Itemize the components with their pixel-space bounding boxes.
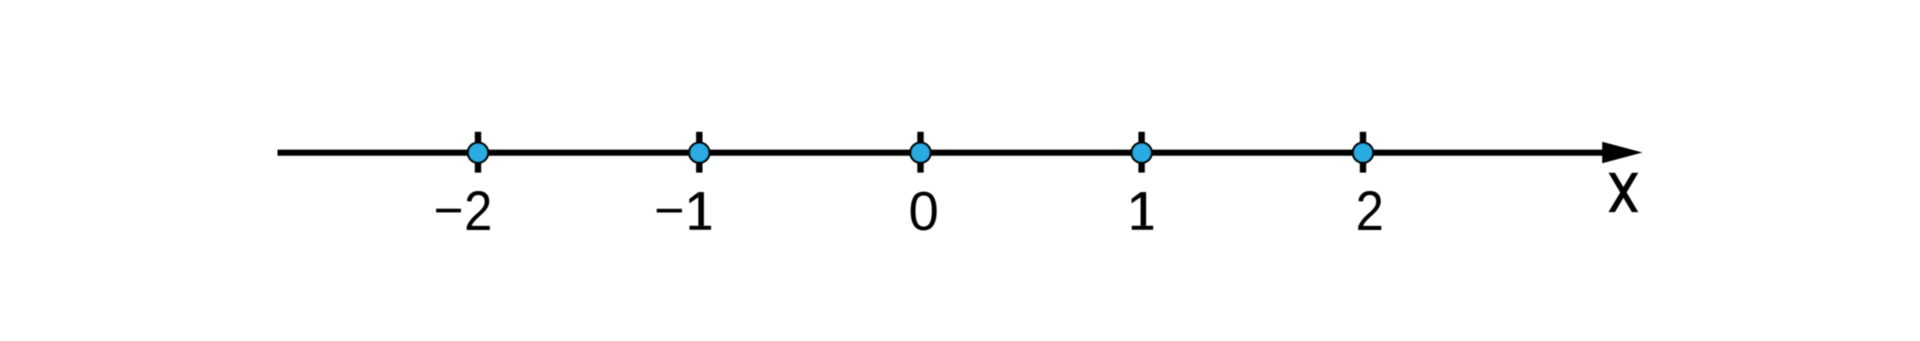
tick 1 xyxy=(1138,132,1144,173)
point at 2 xyxy=(1353,143,1373,163)
tick 2 xyxy=(1360,132,1366,173)
label -2 : minus sign xyxy=(436,209,461,213)
svg-text:0: 0 xyxy=(908,181,938,242)
point at 0 xyxy=(910,143,930,163)
axis label X xyxy=(1609,173,1639,212)
wire: number-line axis xyxy=(278,150,1607,156)
tick -1 xyxy=(696,132,702,173)
arrowhead of X axis xyxy=(1602,142,1642,163)
label 1 xyxy=(1132,192,1154,230)
point at 1 xyxy=(1132,143,1152,163)
label -1 : digit 1 xyxy=(689,192,711,230)
tick 0 xyxy=(917,132,923,173)
svg-text:2: 2 xyxy=(464,181,492,242)
point at -1 xyxy=(689,143,709,163)
label -1 : minus sign xyxy=(657,209,682,213)
point at -2 xyxy=(468,143,488,163)
svg-text:2: 2 xyxy=(1356,181,1384,242)
tick -2 xyxy=(475,132,481,173)
